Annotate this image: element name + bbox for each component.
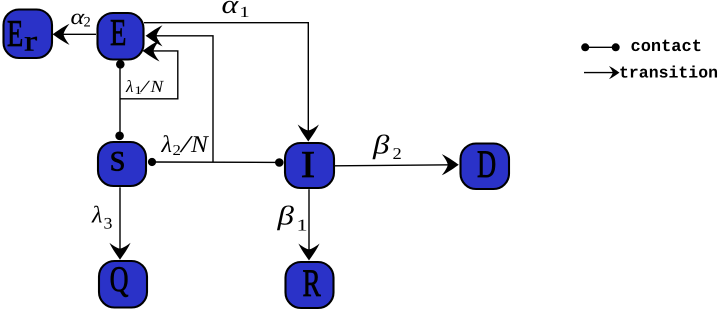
node Er — [4, 10, 53, 59]
legend transition sample — [584, 66, 620, 79]
wire contact S-I — [148, 158, 284, 167]
svg-text:λ: λ — [161, 132, 172, 158]
svg-text:r: r — [24, 26, 38, 58]
svg-text:1: 1 — [239, 4, 249, 21]
svg-text:S: S — [110, 146, 126, 177]
label alpha1 — [222, 0, 250, 21]
svg-text:E: E — [110, 12, 126, 54]
svg-text:Q: Q — [110, 259, 129, 299]
svg-text:R: R — [302, 262, 320, 305]
svg-text:λ: λ — [91, 203, 102, 229]
svg-text:2: 2 — [393, 144, 402, 163]
svg-text:contact: contact — [631, 38, 702, 57]
svg-text:β: β — [372, 130, 390, 160]
legend label transition — [619, 64, 718, 83]
node Q — [99, 259, 147, 308]
label beta1 — [276, 201, 307, 235]
wire beta2: I right into D — [335, 154, 459, 175]
wire alpha1: E top right across and down into I — [144, 23, 319, 142]
node S — [98, 142, 146, 186]
wire lambda2/N: branch from S-I contact up into E — [146, 25, 214, 162]
node I — [285, 143, 334, 188]
label lambda1/N — [125, 77, 165, 97]
wire lambda3: S down into Q — [109, 187, 130, 259]
svg-text:λ: λ — [125, 77, 133, 96]
svg-text:N: N — [149, 77, 165, 96]
svg-text:α: α — [222, 0, 240, 19]
svg-text:2: 2 — [84, 15, 91, 31]
label lambda3 — [91, 203, 112, 233]
node D — [461, 143, 510, 189]
svg-text:N: N — [190, 132, 210, 158]
label alpha2 — [71, 4, 91, 31]
svg-text:D: D — [477, 143, 496, 186]
svg-text:transition: transition — [619, 64, 718, 83]
node E — [98, 12, 144, 60]
svg-text:2: 2 — [173, 143, 181, 159]
node R — [286, 262, 334, 308]
wire lambda1/N: branch from E-S contact into E right side — [120, 40, 178, 99]
label lambda2/N — [161, 132, 210, 159]
wire alpha2: E to Er — [53, 24, 97, 45]
svg-text:3: 3 — [104, 215, 113, 232]
svg-text:β: β — [276, 201, 294, 231]
svg-text:E: E — [7, 13, 23, 55]
wire contact E-S — [115, 60, 124, 140]
wire beta1: I down into R — [298, 189, 319, 260]
svg-text:I: I — [301, 144, 315, 186]
legend contact sample — [581, 43, 620, 51]
svg-text:1: 1 — [297, 216, 308, 235]
label beta2 — [372, 130, 402, 163]
legend label contact — [631, 38, 702, 57]
